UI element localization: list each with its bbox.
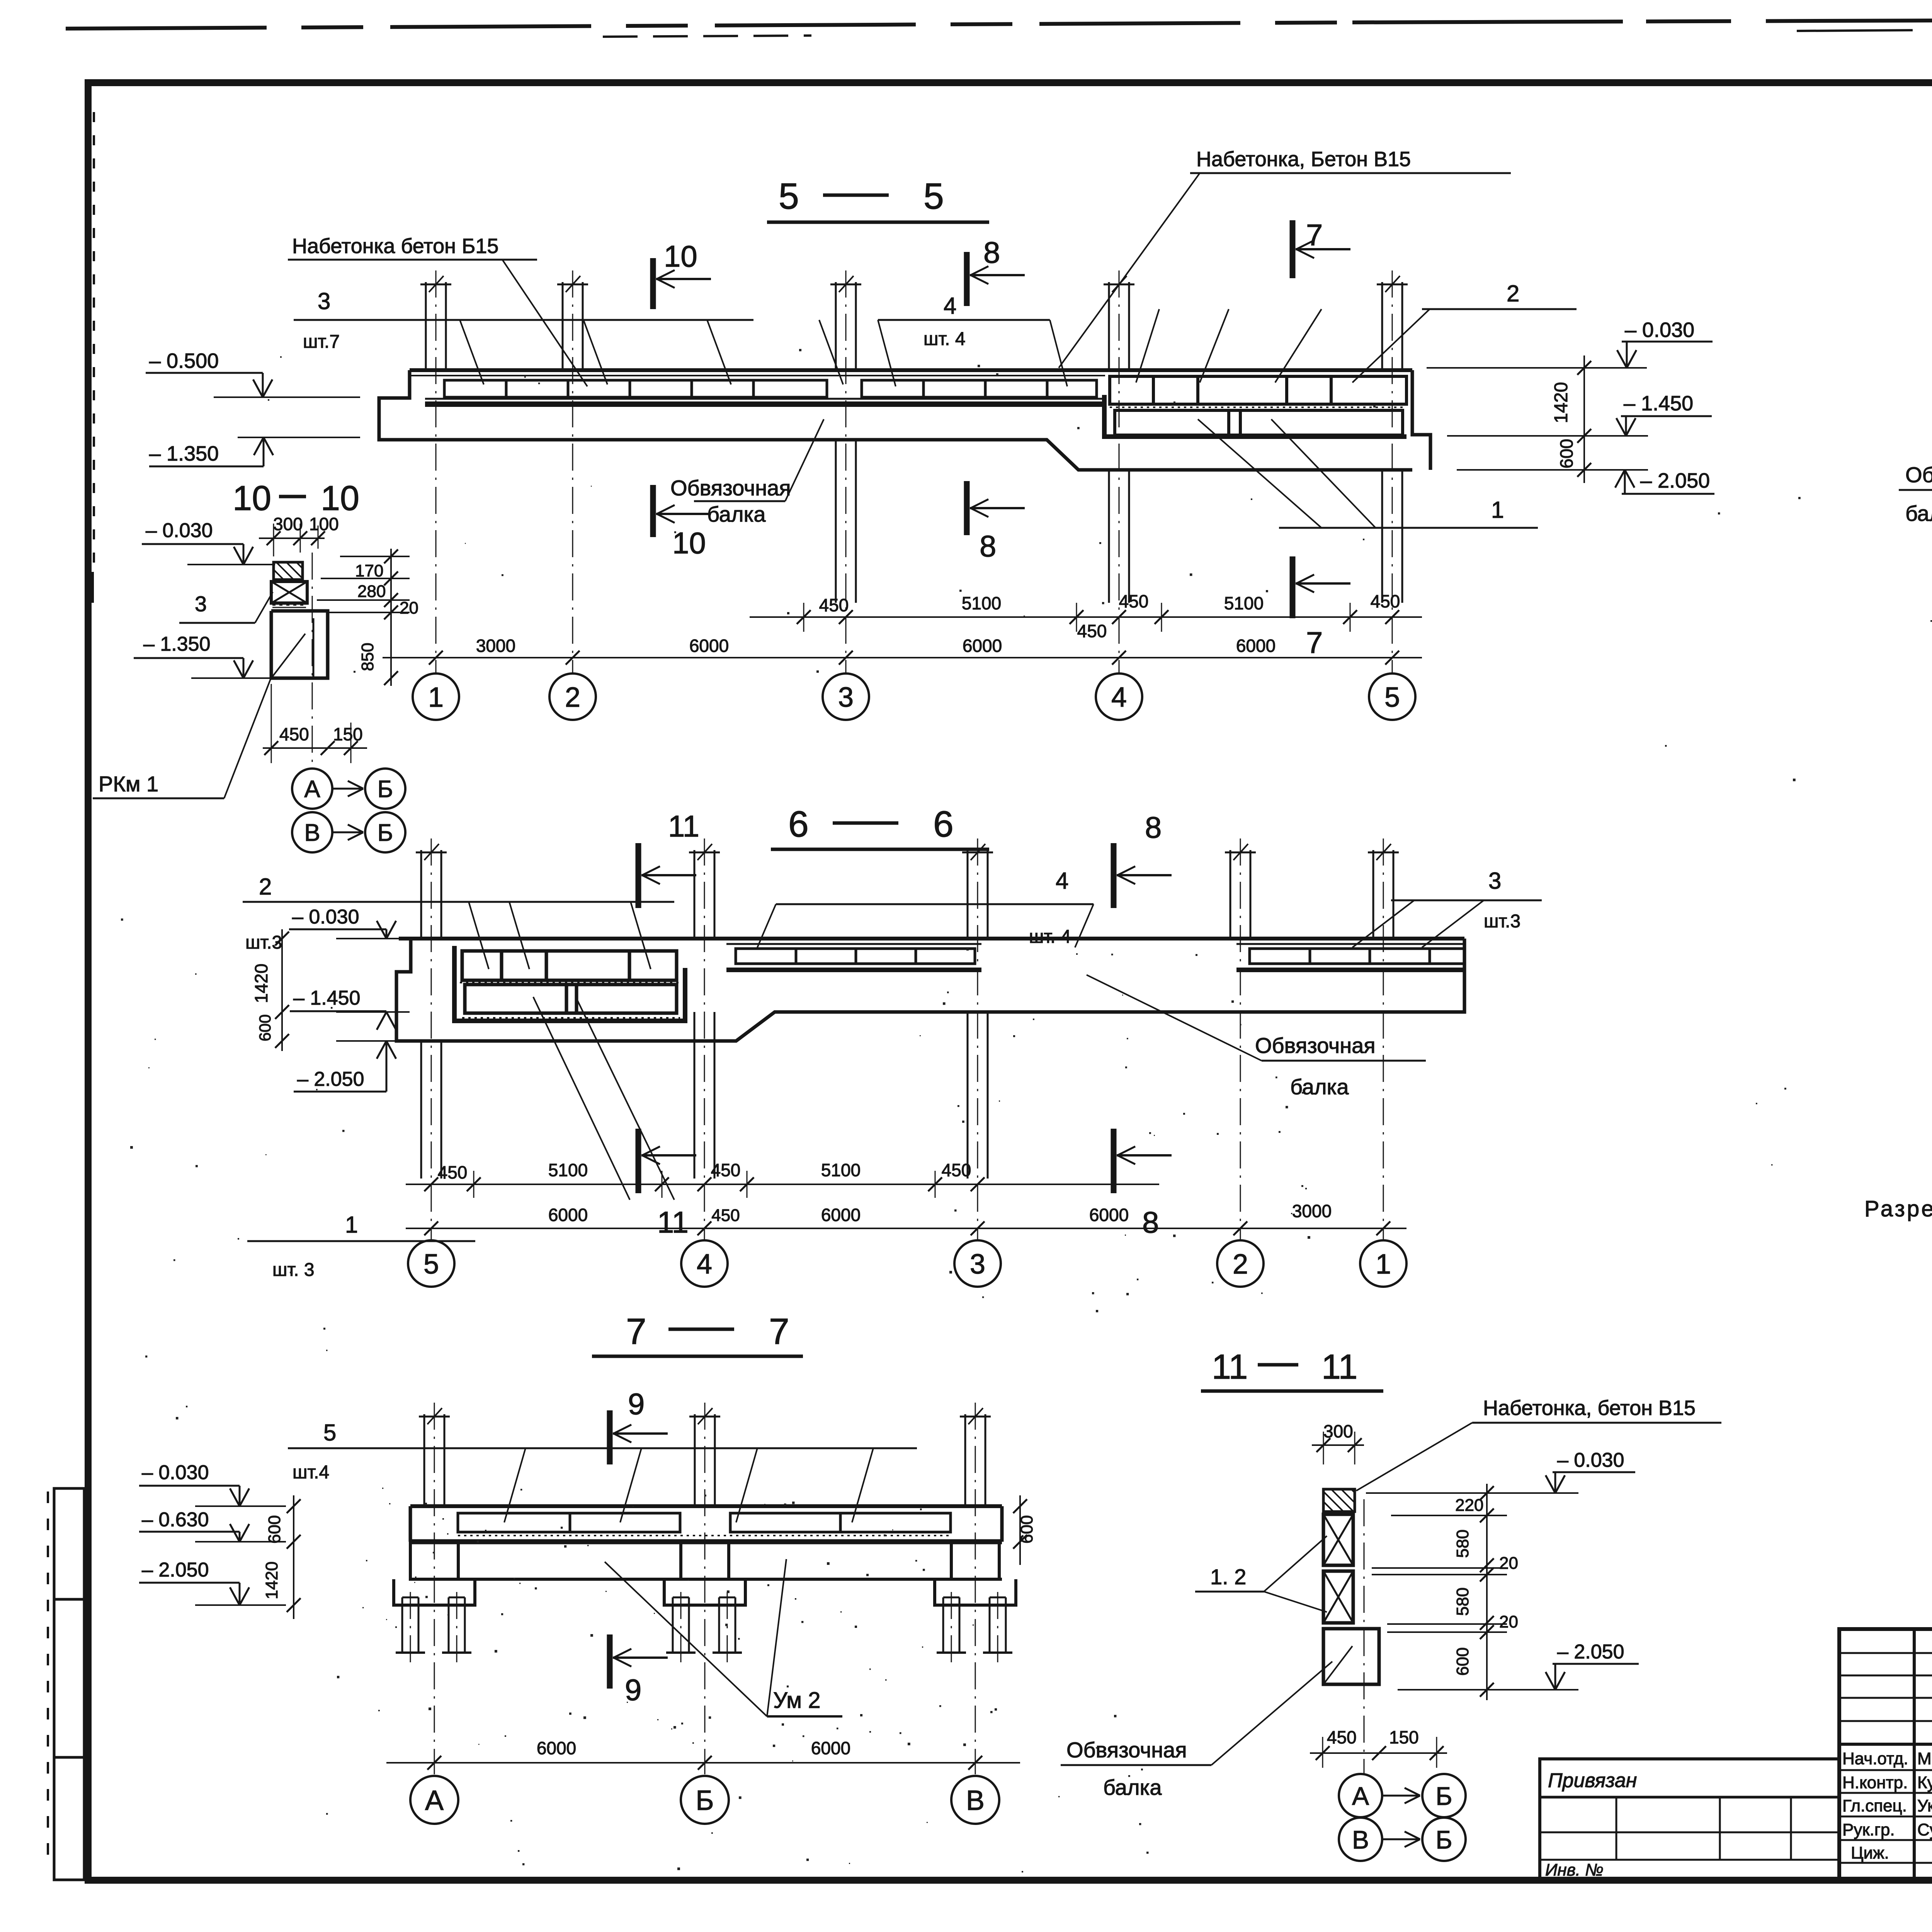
svg-text:5100: 5100 — [962, 593, 1001, 613]
grid bubble 5 (6-6) — [408, 1240, 454, 1287]
cut marker 9 top (7-7) — [607, 1410, 613, 1464]
svg-text:– 0.030: – 0.030 — [146, 519, 213, 542]
svg-text:РКм 1: РКм 1 — [99, 772, 158, 796]
grid bubble B (7-7) — [681, 1776, 729, 1824]
svg-text:балка: балка — [1103, 1775, 1162, 1799]
detail 10-10: right dim chain 170/280/20/850 — [390, 549, 392, 686]
section 7-7: dim row 6000/6000 — [386, 1762, 1020, 1764]
svg-text:220: 220 — [1455, 1496, 1483, 1515]
section 7-7: grid centre lines — [434, 1403, 435, 1774]
svg-text:9: 9 — [628, 1387, 645, 1421]
svg-text:5100: 5100 — [821, 1160, 861, 1180]
svg-text:5: 5 — [423, 1249, 439, 1280]
detail 10-10: beam cross-section — [271, 611, 328, 678]
svg-text:Суворов: Суворов — [1917, 1820, 1932, 1839]
section 5-5: column at grid 1 — [425, 282, 427, 370]
svg-text:1420: 1420 — [262, 1561, 281, 1599]
grid bubble 3 (5-5) — [823, 673, 869, 720]
section 6-6: left vertical dims 1420/600 — [281, 929, 283, 1051]
pos.2 leader diagonals (6-6) — [469, 902, 489, 969]
section 6-6: column at grid 2 — [1230, 850, 1231, 939]
svg-text:Б: Б — [1435, 1782, 1452, 1810]
svg-text:балка: балка — [707, 502, 766, 526]
scan speckle noise — [561, 1527, 563, 1529]
section 5-5: dotted concrete hatch in box — [1110, 406, 1403, 408]
grid bubble 2 (5-5) — [549, 673, 596, 720]
svg-text:– 0.500: – 0.500 — [149, 349, 219, 372]
svg-text:6: 6 — [788, 804, 809, 845]
cut marker 8 bottom (5-5) — [964, 481, 970, 535]
svg-text:шт. 4: шт. 4 — [923, 329, 966, 349]
detail 11-11: nabetonka hatched box — [1323, 1489, 1355, 1512]
detail 10-10: grid dash-dot line — [312, 553, 313, 769]
section 5-5: column at grid 4 — [1108, 282, 1110, 370]
svg-text:Набетонка, бетон В15: Набетонка, бетон В15 — [1483, 1396, 1696, 1420]
svg-text:11: 11 — [657, 1205, 689, 1239]
svg-text:8: 8 — [1145, 810, 1162, 844]
section 5-5: recessed box lower panel row (pos.1) — [1115, 410, 1403, 435]
svg-text:600: 600 — [1017, 1515, 1036, 1543]
svg-text:5100: 5100 — [548, 1160, 588, 1180]
svg-text:6000: 6000 — [821, 1205, 861, 1225]
pos.5 leader diagonals (7-7) — [504, 1448, 526, 1522]
svg-text:шт.7: шт.7 — [303, 332, 340, 352]
cut marker 7 top (5-5) — [1290, 220, 1296, 278]
svg-text:– 2.050: – 2.050 — [297, 1068, 364, 1090]
svg-text:450: 450 — [711, 1160, 741, 1180]
svg-text:Б: Б — [378, 820, 393, 846]
svg-text:6000: 6000 — [689, 636, 729, 656]
svg-text:8: 8 — [1142, 1205, 1159, 1239]
pos.3 leaders (6-6) — [1352, 900, 1414, 947]
svg-text:– 0.030: – 0.030 — [292, 906, 359, 928]
svg-text:600: 600 — [1453, 1647, 1472, 1675]
svg-text:Обвязочная: Обвязочная — [1255, 1033, 1376, 1058]
svg-text:6000: 6000 — [537, 1738, 576, 1758]
cut marker 8 top (6-6) — [1111, 843, 1117, 908]
svg-text:450: 450 — [1371, 591, 1400, 611]
svg-text:5: 5 — [923, 176, 944, 217]
detail 11-11: right dim chain 220/580/20/580/20/600 — [1486, 1484, 1488, 1700]
svg-text:7: 7 — [1306, 218, 1323, 252]
svg-text:Обвязочная: Обвязочная — [1066, 1738, 1187, 1762]
section 5-5: column at grid 3 — [835, 282, 837, 370]
svg-text:3: 3 — [838, 682, 854, 713]
svg-text:450: 450 — [279, 724, 309, 744]
cut marker 7 bottom (5-5) — [1290, 556, 1296, 618]
svg-text:– 0.030: – 0.030 — [1557, 1449, 1624, 1471]
section 6-6: box upper panel row (pos.2) — [462, 951, 677, 980]
section 5-5: right vertical dim chain 1420/600 — [1583, 355, 1585, 483]
svg-text:Набетонка бетон Б15: Набетонка бетон Б15 — [292, 235, 498, 258]
svg-text:1420: 1420 — [1551, 382, 1571, 423]
section 7-7: beam band outline — [410, 1504, 1002, 1508]
section 7-7: footings — [394, 1579, 475, 1605]
section 7-7: band bottom thick line — [410, 1539, 1002, 1544]
svg-text:300: 300 — [1323, 1421, 1353, 1441]
title block: mid revision table columns — [1913, 1629, 1916, 1880]
left margin table — [54, 1488, 84, 1880]
svg-text:150: 150 — [1389, 1727, 1419, 1747]
leader to slab — [502, 260, 587, 386]
svg-text:450: 450 — [942, 1160, 971, 1180]
detail 11-11: slab X-box lower (pos.2) — [1323, 1571, 1353, 1623]
section 6-6: beam outline — [399, 937, 1464, 940]
section 7-7: beam body bottom line — [410, 1578, 1002, 1581]
svg-text:балка: балка — [1290, 1075, 1349, 1099]
cut marker 8 bottom (6-6) — [1111, 1129, 1117, 1193]
svg-text:4: 4 — [697, 1249, 712, 1280]
title block: staff rows — [1839, 1769, 1932, 1771]
svg-text:450: 450 — [438, 1162, 468, 1182]
svg-text:3000: 3000 — [476, 636, 515, 656]
svg-text:4: 4 — [1111, 682, 1127, 713]
svg-text:1. 2: 1. 2 — [1210, 1565, 1246, 1589]
svg-text:450: 450 — [1119, 591, 1149, 611]
section 6-6: column at grid 4 — [694, 850, 696, 939]
svg-text:3000: 3000 — [1292, 1201, 1332, 1221]
cut marker 11 bottom (6-6) — [636, 1129, 641, 1193]
detail 11-11: grid dash-dot — [1364, 1499, 1365, 1774]
svg-text:шт. 3: шт. 3 — [272, 1260, 315, 1280]
grid bubble V (7-7) — [951, 1776, 999, 1824]
svg-text:В: В — [1352, 1825, 1369, 1854]
svg-text:10: 10 — [321, 479, 359, 518]
svg-text:Циж.: Циж. — [1851, 1844, 1889, 1862]
svg-text:450: 450 — [711, 1206, 740, 1225]
svg-text:Б: Б — [696, 1785, 714, 1816]
orientation bubbles A->B / V->B (10-10) — [292, 769, 332, 809]
svg-text:6000: 6000 — [811, 1738, 850, 1758]
svg-text:6000: 6000 — [963, 636, 1002, 656]
title block: privyazan box — [1540, 1759, 1839, 1880]
svg-text:11: 11 — [668, 809, 699, 843]
grid bubble A (7-7) — [410, 1776, 458, 1824]
section 6-6: middle slab panels grid4-3 (pos.4) — [726, 943, 981, 945]
svg-text:– 1.350: – 1.350 — [149, 442, 219, 465]
svg-text:шт.4: шт.4 — [293, 1462, 329, 1483]
svg-text:Набетонка, Бетон В15: Набетонка, Бетон В15 — [1196, 148, 1411, 171]
svg-text:Манкаускас: Манкаускас — [1917, 1749, 1932, 1768]
section 6-6: recessed box grid5-4 — [454, 946, 685, 1021]
pos.1 leaders (6-6) — [533, 997, 630, 1200]
svg-text:8: 8 — [983, 235, 1000, 269]
privyazan table lines — [1540, 1832, 1839, 1833]
svg-text:170: 170 — [355, 561, 383, 580]
svg-text:Привязан: Привязан — [1548, 1769, 1637, 1792]
scan artifact: left inner dashed vertical — [93, 112, 95, 564]
svg-text:850: 850 — [358, 643, 377, 671]
svg-text:Гл.спец.: Гл.спец. — [1842, 1796, 1907, 1815]
scan artifact: top dashed band — [66, 22, 1352, 29]
leader — [1059, 173, 1200, 368]
detail 10-10: nabetonka hatched box — [274, 562, 303, 580]
svg-text:Разрезы: Разрезы — [1864, 1196, 1932, 1221]
svg-text:3: 3 — [318, 288, 330, 314]
svg-text:Инв. №: Инв. № — [1545, 1861, 1604, 1879]
svg-text:7: 7 — [626, 1311, 646, 1352]
svg-text:600: 600 — [1556, 439, 1577, 469]
section 6-6: column at grid 5 — [420, 850, 422, 939]
svg-text:– 2.050: – 2.050 — [1557, 1641, 1624, 1663]
svg-text:5100: 5100 — [1224, 593, 1264, 613]
detail 11-11: beam cross-section — [1323, 1629, 1379, 1684]
svg-text:– 0.030: – 0.030 — [1625, 318, 1694, 342]
detail 10-10: slab end X-box pos.3 — [271, 582, 307, 603]
svg-text:6: 6 — [933, 804, 954, 845]
section 6-6: lower dim row 6000/6000/6000/3000 — [406, 1228, 1406, 1229]
section 5-5: column at grid 2 — [562, 282, 564, 370]
svg-text:450: 450 — [1327, 1727, 1357, 1747]
svg-text:6000: 6000 — [1089, 1205, 1129, 1225]
svg-text:7: 7 — [769, 1311, 789, 1352]
title block: outer border — [1839, 1629, 1932, 1880]
section 5-5: right end step of beam — [1412, 370, 1430, 470]
svg-text:8: 8 — [980, 529, 996, 563]
svg-text:– 0.630: – 0.630 — [142, 1509, 209, 1531]
svg-text:20: 20 — [1499, 1612, 1518, 1631]
svg-text:2: 2 — [565, 682, 580, 713]
svg-text:Курленко: Курленко — [1917, 1773, 1932, 1792]
cut marker 11 top (6-6) — [636, 843, 641, 908]
section 7-7: panels between columns (pos.5) — [458, 1513, 680, 1532]
grid bubble 2 (6-6) — [1217, 1240, 1264, 1287]
cut marker 9 bottom (7-7) — [607, 1634, 613, 1689]
svg-text:600: 600 — [256, 1014, 274, 1041]
svg-text:150: 150 — [333, 724, 363, 744]
svg-text:4: 4 — [944, 293, 956, 319]
svg-text:– 1.350: – 1.350 — [143, 633, 211, 655]
svg-text:Б: Б — [1435, 1825, 1452, 1854]
svg-text:10: 10 — [233, 479, 271, 518]
svg-text:2: 2 — [259, 874, 272, 900]
section 7-7: piles — [401, 1597, 403, 1653]
svg-text:5: 5 — [1384, 682, 1400, 713]
section 6-6: box lower panel row (pos.1) — [465, 985, 677, 1013]
svg-text:11: 11 — [1321, 1348, 1357, 1386]
svg-text:3: 3 — [970, 1249, 985, 1280]
svg-text:– 1.450: – 1.450 — [293, 987, 361, 1009]
section 7-7: right vertical dim 600 — [1019, 1495, 1021, 1565]
svg-text:– 1.450: – 1.450 — [1624, 392, 1693, 415]
svg-text:Обвязочная: Обвязочная — [670, 476, 791, 500]
grid bubble 1 (6-6) — [1360, 1240, 1406, 1287]
svg-text:А: А — [425, 1785, 444, 1816]
section 5-5: column at grid 5 — [1381, 282, 1383, 370]
svg-text:1: 1 — [1376, 1249, 1391, 1280]
svg-text:А: А — [304, 776, 320, 803]
section 6-6: column at grid 3 — [967, 850, 969, 939]
svg-text:1: 1 — [345, 1212, 358, 1238]
svg-text:В: В — [966, 1785, 985, 1816]
svg-text:580: 580 — [1453, 1587, 1472, 1616]
grid bubble 3 (6-6) — [954, 1240, 1001, 1287]
title block: mid revision table rows — [1839, 1652, 1932, 1654]
section 6-6: grid centre lines — [431, 838, 432, 1240]
svg-text:11: 11 — [1212, 1348, 1248, 1386]
cut marker 8 top (5-5) — [964, 252, 970, 306]
section 5-5: recessed box grid4-5 outer wall — [1104, 395, 1406, 437]
svg-text:6000: 6000 — [548, 1205, 588, 1225]
section 7-7: column heads — [410, 1542, 458, 1579]
svg-text:5: 5 — [779, 176, 799, 217]
svg-text:10: 10 — [672, 526, 706, 560]
svg-text:4: 4 — [1056, 868, 1068, 894]
grid bubble 5 (5-5) — [1369, 673, 1415, 720]
svg-text:шт.3: шт.3 — [245, 932, 282, 953]
svg-text:1420: 1420 — [251, 964, 271, 1003]
svg-text:балка: балка — [1905, 501, 1932, 526]
svg-text:10: 10 — [664, 239, 697, 273]
svg-text:6000: 6000 — [1236, 636, 1276, 656]
section 5-5: lower dimension row 3000/6000/6000/6000 — [383, 657, 1422, 658]
section 5-5: floor panels row grid1-3 (pos.3) — [444, 380, 827, 397]
detail 10-10: mortar dotted layer — [272, 602, 306, 603]
grid bubble 1 (5-5) — [413, 673, 459, 720]
svg-text:Б: Б — [378, 776, 393, 803]
pos.1 leaders — [1198, 419, 1321, 528]
svg-text:20: 20 — [1499, 1554, 1518, 1573]
svg-text:Ум 2: Ум 2 — [773, 1688, 821, 1713]
svg-text:450: 450 — [819, 595, 849, 615]
cut marker 10 bottom (5-5) — [650, 485, 656, 537]
svg-text:3: 3 — [1488, 868, 1501, 894]
section 7-7: columns above beam — [423, 1414, 425, 1506]
svg-text:600: 600 — [265, 1515, 284, 1543]
section 6-6: dotted hatch in box — [460, 982, 680, 983]
section 5-5: slab top thin line — [410, 375, 1105, 376]
section 7-7: left vertical dims 600/1420 — [293, 1495, 294, 1619]
svg-text:Н.контр.: Н.контр. — [1842, 1773, 1908, 1792]
svg-text:450: 450 — [1077, 621, 1107, 641]
svg-text:580: 580 — [1453, 1529, 1472, 1558]
svg-text:А: А — [1352, 1782, 1369, 1810]
svg-text:1: 1 — [1491, 497, 1504, 523]
section 5-5: panel band bottom thick line — [425, 401, 1105, 407]
svg-text:1: 1 — [428, 682, 444, 713]
section 6-6: right slab panels grid2-1 (pos.3) — [1236, 943, 1464, 945]
section 5-5: floor panels row grid3-4 (pos.4) — [862, 380, 1097, 397]
svg-text:20: 20 — [400, 599, 418, 617]
svg-text:2: 2 — [1507, 281, 1519, 306]
pos.2 leader diagonals — [1136, 309, 1159, 383]
svg-text:9: 9 — [625, 1673, 641, 1707]
svg-text:300: 300 — [273, 514, 303, 534]
svg-text:280: 280 — [357, 582, 386, 601]
svg-text:– 2.050: – 2.050 — [142, 1559, 209, 1581]
svg-text:7: 7 — [1306, 626, 1323, 660]
svg-text:3: 3 — [195, 592, 207, 616]
svg-text:В: В — [304, 820, 320, 846]
scan artifact: left margin dashes bottom — [47, 1492, 49, 1866]
svg-text:Укропова: Укропова — [1917, 1796, 1932, 1815]
svg-text:– 0.030: – 0.030 — [142, 1461, 209, 1484]
orientation bubbles A->B / V->B (11-11) — [1339, 1774, 1382, 1817]
svg-text:Обвязочная: Обвязочная — [1905, 463, 1932, 487]
grid bubble 4 (6-6) — [681, 1240, 728, 1287]
svg-text:5: 5 — [323, 1420, 336, 1446]
section 5-5: recessed box upper panel row (pos.2) — [1110, 376, 1406, 404]
svg-text:Нач.отд.: Нач.отд. — [1842, 1749, 1908, 1768]
section 6-6: column at grid 1 — [1372, 850, 1374, 939]
section 5-5: beam outline (obvyazochnaya balka) — [410, 368, 1412, 372]
detail 11-11: slab X-box upper (pos.1) — [1323, 1514, 1353, 1565]
svg-text:шт. 4: шт. 4 — [1029, 927, 1071, 947]
pos.3 leader diagonals — [460, 320, 484, 384]
svg-text:Рук.гр.: Рук.гр. — [1842, 1820, 1895, 1839]
svg-text:2: 2 — [1233, 1249, 1248, 1280]
grid bubble 4 (5-5) — [1096, 673, 1142, 720]
section 6-6: upper dim row — [406, 1184, 1159, 1185]
svg-text:– 2.050: – 2.050 — [1640, 469, 1710, 492]
cut marker 10 top (5-5) — [650, 258, 656, 309]
section 5-5: upper dimension row 450/5100/450/450/5100/450 — [750, 616, 1422, 618]
section 5-5: grid centre lines — [435, 270, 437, 673]
svg-text:шт.3: шт.3 — [1484, 911, 1520, 932]
